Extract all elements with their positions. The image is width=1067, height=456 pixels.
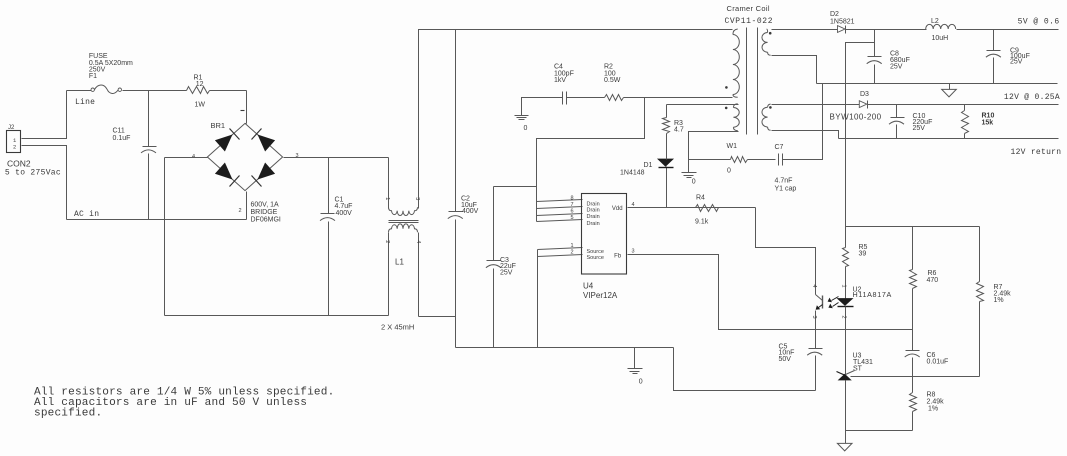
resistor R4 bbox=[695, 194, 719, 225]
transformer T1 primary winding bbox=[733, 29, 739, 97]
wire L1 right vertical top bbox=[419, 30, 456, 209]
svg-text:Drain: Drain bbox=[587, 214, 600, 220]
svg-text:2: 2 bbox=[13, 143, 16, 150]
svg-text:Drain: Drain bbox=[587, 201, 600, 207]
svg-text:0: 0 bbox=[524, 125, 528, 132]
svg-text:D2: D2 bbox=[830, 11, 839, 18]
resistor R8 bbox=[910, 377, 945, 431]
svg-text:4: 4 bbox=[415, 240, 421, 243]
svg-text:Line: Line bbox=[75, 98, 95, 107]
wire AC-in bottom rail bbox=[67, 219, 247, 221]
svg-text:0: 0 bbox=[692, 179, 696, 186]
resistor R6 bbox=[910, 227, 939, 330]
transformer core bbox=[747, 28, 758, 135]
svg-text:W1: W1 bbox=[727, 143, 738, 150]
svg-text:4.7nF: 4.7nF bbox=[775, 178, 793, 185]
svg-text:FUSE: FUSE bbox=[89, 53, 108, 60]
svg-text:J2: J2 bbox=[8, 125, 15, 131]
svg-text:VIPer12A: VIPer12A bbox=[583, 291, 618, 300]
wire primary common rail mid bbox=[456, 347, 674, 349]
transformer T1 5V secondary winding bbox=[762, 29, 771, 55]
wire TL431 ref line bbox=[851, 376, 980, 378]
svg-text:R10: R10 bbox=[982, 113, 995, 120]
capacitor C9 bbox=[986, 30, 1030, 84]
wire D2 cathode to L2 bbox=[846, 29, 927, 31]
node label Line bbox=[75, 98, 95, 107]
resistor R1 bbox=[187, 74, 210, 108]
wire C8 node vertical bbox=[874, 30, 876, 57]
svg-text:12V return: 12V return bbox=[1011, 148, 1062, 157]
svg-text:6: 6 bbox=[570, 209, 573, 215]
wire 5V return rail bbox=[817, 83, 1058, 85]
wire primary common to C5 bottom bbox=[674, 348, 816, 391]
capacitor C6 bbox=[905, 330, 949, 377]
svg-text:D3: D3 bbox=[860, 91, 869, 98]
op-amp U4 VIPer12A box bbox=[582, 194, 627, 301]
wire top AC rail segments bbox=[67, 90, 247, 92]
svg-text:ST: ST bbox=[853, 365, 863, 372]
svg-text:0: 0 bbox=[639, 378, 643, 385]
resistor R3 bbox=[663, 105, 684, 160]
svg-text:Drain: Drain bbox=[587, 221, 600, 227]
svg-text:1: 1 bbox=[570, 243, 573, 249]
wire C3 to drain bundle bbox=[494, 186, 537, 188]
svg-text:BR1: BR1 bbox=[211, 121, 226, 130]
ground arrow TL431 bbox=[837, 443, 852, 451]
svg-text:25V: 25V bbox=[1010, 59, 1023, 66]
transformer T1 12V secondary winding bbox=[762, 104, 771, 130]
wire bridge right to L1 bbox=[284, 157, 389, 159]
wire aux gnd to W1 bbox=[689, 159, 731, 161]
wire feedback rail bbox=[816, 329, 913, 331]
wire C4 to R2 bbox=[567, 97, 605, 99]
svg-text:25V: 25V bbox=[500, 269, 513, 276]
capacitor C2 bbox=[448, 30, 479, 317]
inductor L1 core bbox=[389, 221, 419, 223]
wire aux winding bottom bbox=[689, 132, 739, 160]
wire DC- bottom rail left segment bbox=[165, 315, 389, 317]
svg-text:4: 4 bbox=[811, 285, 817, 288]
node label 12V return bbox=[1011, 148, 1062, 157]
capacitor C5 bbox=[779, 330, 823, 391]
svg-text:0.5W: 0.5W bbox=[604, 77, 621, 84]
svg-text:Y1 cap: Y1 cap bbox=[775, 186, 797, 193]
wire drain pin 7 bbox=[537, 207, 583, 209]
svg-text:10uH: 10uH bbox=[932, 35, 949, 42]
wire C7 to 5V return bbox=[783, 84, 823, 160]
svg-text:50V: 50V bbox=[779, 356, 792, 363]
svg-text:1%: 1% bbox=[928, 405, 938, 412]
wire R8 bottom to TL431 anode bbox=[846, 430, 913, 432]
wire J2 pin1 to Line rail bbox=[22, 91, 67, 139]
wire 5V secondary to D2 bbox=[772, 29, 838, 31]
svg-text:2 X 45mH: 2 X 45mH bbox=[381, 323, 414, 332]
svg-text:Source: Source bbox=[587, 255, 604, 261]
bridge pin labels bbox=[192, 111, 299, 214]
svg-text:L2: L2 bbox=[931, 18, 939, 25]
wire L1 left vertical top bbox=[388, 158, 390, 209]
svg-text:Drain: Drain bbox=[587, 207, 600, 213]
svg-text:Source: Source bbox=[587, 249, 604, 255]
label U2 bbox=[853, 286, 892, 299]
bridge diode upper-right bbox=[252, 129, 276, 152]
wire DC- vertical bbox=[164, 158, 166, 316]
svg-text:specified.: specified. bbox=[34, 408, 102, 420]
wire 12V return rail bbox=[839, 138, 1059, 140]
wire L1 left vertical bottom bbox=[388, 233, 390, 316]
svg-text:BYW100-200: BYW100-200 bbox=[830, 113, 882, 122]
svg-text:5V @ 0.6: 5V @ 0.6 bbox=[1018, 17, 1060, 26]
ground 0 snubber bbox=[515, 98, 563, 132]
svg-text:3: 3 bbox=[811, 316, 817, 319]
shunt regulator U3 TL431 bbox=[837, 330, 873, 444]
U4 pin numbers bbox=[570, 195, 634, 255]
label CVP11-022 bbox=[725, 17, 774, 26]
wire feedback top rail bbox=[846, 226, 980, 228]
wire W1 to C7 bbox=[748, 159, 776, 161]
svg-text:1kV: 1kV bbox=[554, 77, 566, 84]
inductor L1 top winding bbox=[389, 207, 418, 215]
fuse F1 bbox=[89, 53, 133, 93]
svg-text:3: 3 bbox=[632, 248, 635, 254]
bridge diode lower-right bbox=[252, 163, 276, 187]
resistor R5 bbox=[843, 227, 868, 299]
wire J2 pin2 to AC-in rail bbox=[22, 146, 67, 220]
label L1 bbox=[395, 257, 404, 266]
node label 12V output bbox=[1004, 93, 1060, 102]
svg-text:5: 5 bbox=[570, 215, 573, 221]
wire Fb line bbox=[628, 255, 816, 330]
wire 12V rail bbox=[868, 104, 1059, 106]
optocoupler U2 LED bbox=[838, 299, 854, 330]
svg-text:Cramer Coil: Cramer Coil bbox=[727, 4, 770, 13]
optocoupler U2 transistor bbox=[816, 295, 823, 330]
svg-text:2: 2 bbox=[384, 240, 390, 243]
svg-text:9.1k: 9.1k bbox=[695, 218, 709, 225]
L1 pin labels bbox=[384, 197, 421, 243]
wire R4 to opto collector bbox=[756, 208, 816, 295]
svg-text:Vdd: Vdd bbox=[612, 206, 623, 212]
wire drain tap bbox=[537, 98, 645, 222]
note text bbox=[34, 387, 334, 420]
capacitor C11 bbox=[113, 91, 157, 220]
svg-text:25V: 25V bbox=[913, 125, 926, 132]
svg-text:R8: R8 bbox=[927, 392, 936, 399]
capacitor C1 bbox=[320, 158, 352, 316]
svg-text:15k: 15k bbox=[982, 120, 994, 127]
svg-text:CON2: CON2 bbox=[7, 158, 31, 168]
inductor L2 bbox=[926, 18, 956, 42]
transformer aux dot bbox=[725, 107, 728, 110]
svg-text:1: 1 bbox=[840, 285, 846, 288]
svg-text:25V: 25V bbox=[890, 63, 903, 70]
svg-text:1N4148: 1N4148 bbox=[620, 169, 645, 176]
svg-text:400V: 400V bbox=[336, 210, 353, 217]
bridge rectifier BR1 diamond bbox=[207, 123, 282, 190]
svg-text:Fb: Fb bbox=[614, 253, 622, 259]
bridge diode lower-left bbox=[215, 163, 240, 187]
label 2 X 45mH bbox=[381, 323, 414, 332]
resistor R10 bbox=[962, 105, 995, 139]
svg-text:BRIDGE: BRIDGE bbox=[251, 209, 278, 216]
wire DC- rail right segment bbox=[419, 317, 456, 348]
label BR1 bbox=[211, 121, 226, 130]
svg-text:C7: C7 bbox=[775, 144, 784, 151]
svg-text:1: 1 bbox=[384, 197, 390, 200]
capacitor C10 bbox=[889, 105, 932, 139]
svg-text:0: 0 bbox=[727, 167, 731, 174]
ground 0 primary common bbox=[628, 348, 643, 386]
wire source bundle bbox=[538, 248, 583, 348]
svg-text:7: 7 bbox=[570, 202, 573, 208]
capacitor C4 bbox=[554, 64, 574, 105]
ground 0 aux bbox=[682, 160, 697, 186]
label bridge part bbox=[251, 202, 281, 224]
capacitor C7 bbox=[775, 144, 797, 192]
svg-text:5 to 275Vac: 5 to 275Vac bbox=[5, 168, 61, 177]
wire 12V secondary return bbox=[772, 131, 839, 139]
svg-text:8: 8 bbox=[570, 195, 573, 201]
inductor L1 bottom winding bbox=[389, 224, 418, 232]
capacitor C3 bbox=[486, 187, 516, 348]
svg-text:400V: 400V bbox=[462, 208, 479, 215]
svg-text:R6: R6 bbox=[928, 270, 937, 277]
svg-text:CVP11-022: CVP11-022 bbox=[725, 17, 774, 26]
wire bridge bottom lead bbox=[246, 192, 248, 220]
svg-text:L1: L1 bbox=[395, 257, 404, 266]
wire bridge left to DC- vertical bbox=[165, 157, 208, 159]
node label 5V output bbox=[1018, 17, 1060, 26]
svg-text:39: 39 bbox=[859, 251, 867, 258]
transformer T1 aux winding bbox=[733, 104, 739, 131]
svg-text:12V @ 0.25A: 12V @ 0.25A bbox=[1004, 93, 1060, 102]
resistor R2 bbox=[604, 64, 624, 101]
svg-text:F1: F1 bbox=[89, 73, 97, 80]
resistor R7 bbox=[977, 227, 1012, 377]
svg-text:2: 2 bbox=[570, 250, 573, 256]
wire 12V secondary to D3 bbox=[772, 104, 860, 106]
svg-text:3: 3 bbox=[414, 197, 420, 200]
svg-text:2: 2 bbox=[239, 208, 242, 214]
wire L2 to 5V out bbox=[957, 29, 1059, 31]
node label AC in bbox=[74, 210, 99, 219]
wire drain pin 5 bbox=[537, 220, 583, 222]
svg-text:1N5821: 1N5821 bbox=[830, 18, 855, 25]
svg-text:4.7: 4.7 bbox=[674, 126, 684, 133]
resistor W1 jumper bbox=[727, 143, 748, 174]
svg-text:R4: R4 bbox=[696, 194, 705, 201]
svg-text:2: 2 bbox=[840, 316, 846, 319]
diode D1 1N4148 bbox=[620, 159, 674, 207]
svg-text:0.01uF: 0.01uF bbox=[927, 358, 949, 365]
connector J2 (CON2) bbox=[5, 125, 61, 177]
svg-text:AC in: AC in bbox=[74, 210, 99, 219]
bridge diode upper-left bbox=[215, 129, 240, 152]
svg-text:C11: C11 bbox=[113, 128, 125, 135]
U2 pin labels bbox=[811, 285, 847, 319]
svg-text:12: 12 bbox=[196, 81, 204, 88]
wire drain pin 8 bbox=[537, 200, 583, 202]
capacitor C8 bbox=[867, 50, 910, 83]
transformer primary dot bbox=[725, 86, 728, 89]
svg-text:600V, 1A: 600V, 1A bbox=[251, 202, 279, 209]
optocoupler U2 light arrows bbox=[828, 297, 839, 309]
svg-text:1%: 1% bbox=[994, 297, 1004, 304]
wire top DC+ rail to transformer bbox=[456, 29, 733, 31]
wire aux winding top to R3 bbox=[667, 104, 739, 106]
wire drain pin 6 bbox=[537, 214, 583, 216]
ground arrow secondary bbox=[942, 84, 957, 97]
svg-text:H11A817A: H11A817A bbox=[853, 290, 892, 299]
transformer 12V secondary dot bbox=[769, 106, 772, 109]
svg-text:1W: 1W bbox=[195, 102, 206, 109]
wire Vdd line bbox=[628, 207, 756, 209]
wire feedback tap bbox=[846, 43, 875, 227]
wire R2 to drain node / primary bottom bbox=[624, 97, 733, 99]
diode D3 BYW100-200 bbox=[830, 91, 882, 122]
svg-text:D1: D1 bbox=[644, 162, 653, 169]
svg-text:0.1uF: 0.1uF bbox=[113, 135, 131, 142]
svg-text:U4: U4 bbox=[583, 282, 594, 291]
wire 5V secondary return bbox=[772, 56, 817, 84]
wire bridge top lead bbox=[246, 91, 247, 124]
diode D2 1N5821 bbox=[830, 11, 855, 33]
transformer 5V secondary dot bbox=[769, 32, 772, 35]
wire L1 right vertical bottom bbox=[418, 233, 420, 317]
svg-text:DF06MGI: DF06MGI bbox=[251, 217, 281, 224]
svg-text:470: 470 bbox=[927, 277, 939, 284]
svg-text:3: 3 bbox=[296, 153, 299, 159]
label Cramer Coil bbox=[727, 4, 770, 13]
